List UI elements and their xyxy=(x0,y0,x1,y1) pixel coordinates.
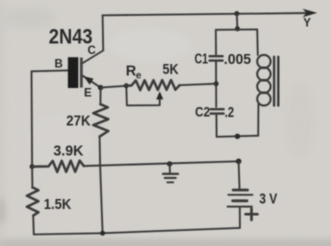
battery BT1 plate 4 (long) xyxy=(228,206,252,208)
wire: bottom rail xyxy=(34,228,240,235)
transistor Q1 emitter lead (diagonal) xyxy=(83,76,101,88)
ground bar 1 xyxy=(163,173,178,175)
node: top rail junction xyxy=(234,11,239,16)
wire: base lead from left corner to transistor base bar xyxy=(32,69,69,72)
transistor Q1 base bar xyxy=(68,57,78,88)
transformer core bar 2 xyxy=(277,57,279,106)
wire: coil top lead xyxy=(256,29,259,55)
node: base divider junction xyxy=(30,164,35,169)
wire: battery top lead xyxy=(238,161,241,188)
capacitor C1 bottom plate xyxy=(210,59,223,61)
battery BT1 plate 1 (short) xyxy=(233,189,248,192)
wire: Re to tank tap xyxy=(180,84,217,86)
node: tank top tee xyxy=(235,26,240,31)
node: battery top junction xyxy=(236,159,242,165)
wire: C1 to C2 link with tap xyxy=(215,62,217,107)
wire: top rail xyxy=(103,13,310,15)
capacitor C2 top plate xyxy=(211,108,224,110)
inductor L1 winding loop 4 xyxy=(257,92,270,105)
bottom darker band xyxy=(0,239,331,246)
inductor L1 winding loop 2 xyxy=(257,67,270,80)
rheostat wiper arrow of Re xyxy=(156,91,163,99)
left edge light column xyxy=(0,0,5,246)
resistor 27K zigzag xyxy=(93,104,108,136)
output arrowhead Y xyxy=(303,9,318,18)
wire: tank top bar xyxy=(216,28,257,30)
ground stub xyxy=(169,164,171,173)
inductor L1 winding loop 3 xyxy=(257,80,270,93)
node: Re left end xyxy=(124,83,129,88)
node: emitter junction xyxy=(98,85,103,90)
wire: 1.5K bottom lead xyxy=(32,216,35,235)
node: tank bottom tee xyxy=(235,134,240,139)
left edge smudge xyxy=(0,197,6,225)
paper mottling xyxy=(4,6,318,165)
battery plus sign xyxy=(246,213,258,216)
wire: 27K bottom through mid rail down to bottom rail xyxy=(100,137,103,234)
ground bar 2 xyxy=(165,177,176,179)
node: ground junction xyxy=(167,161,172,166)
resistor 3.9K zigzag xyxy=(32,161,84,172)
transistor Q1 emitter arrow (PNP, points to base) xyxy=(84,76,94,84)
resistor 27K lead from emitter node xyxy=(99,88,101,105)
battery BT1 plate 3 (short) xyxy=(233,199,247,202)
resistor Re 5K zigzag xyxy=(126,80,179,90)
wire: C1 top lead xyxy=(215,30,217,54)
transformer core bar 1 xyxy=(273,57,275,106)
capacitor C2 bottom plate xyxy=(211,112,224,114)
wire: emitter node to Re xyxy=(101,86,127,88)
node: Re/5K tap on tank xyxy=(214,81,219,86)
wire: coil bottom lead xyxy=(257,105,259,136)
resistor 1.5K zigzag xyxy=(27,187,39,215)
wire: C2 bottom lead to tank bottom bar xyxy=(216,115,258,137)
transistor Q1 base bar echo stripe xyxy=(80,58,83,88)
capacitor C1 top plate xyxy=(210,55,223,57)
battery BT1 plate 2 (long) xyxy=(228,194,252,196)
transistor Q1 collector lead (diagonal) xyxy=(83,51,103,64)
wire: collector riser to top rail xyxy=(102,15,105,50)
resistor 1.5K lead from base divider xyxy=(31,167,33,188)
node: bottom rail junction xyxy=(100,231,105,236)
wire: mid rail (3.9K to battery top) xyxy=(84,161,239,166)
wire: left vertical (base node down to 1.5K top) xyxy=(31,71,34,166)
inductor L1 winding loop 1 xyxy=(257,55,270,68)
wire: battery bottom lead xyxy=(239,208,241,228)
rheostat wiper loop of Re xyxy=(126,86,159,106)
ground bar 3 xyxy=(167,181,173,183)
wire: drop from top rail to tank top bar xyxy=(236,14,239,29)
